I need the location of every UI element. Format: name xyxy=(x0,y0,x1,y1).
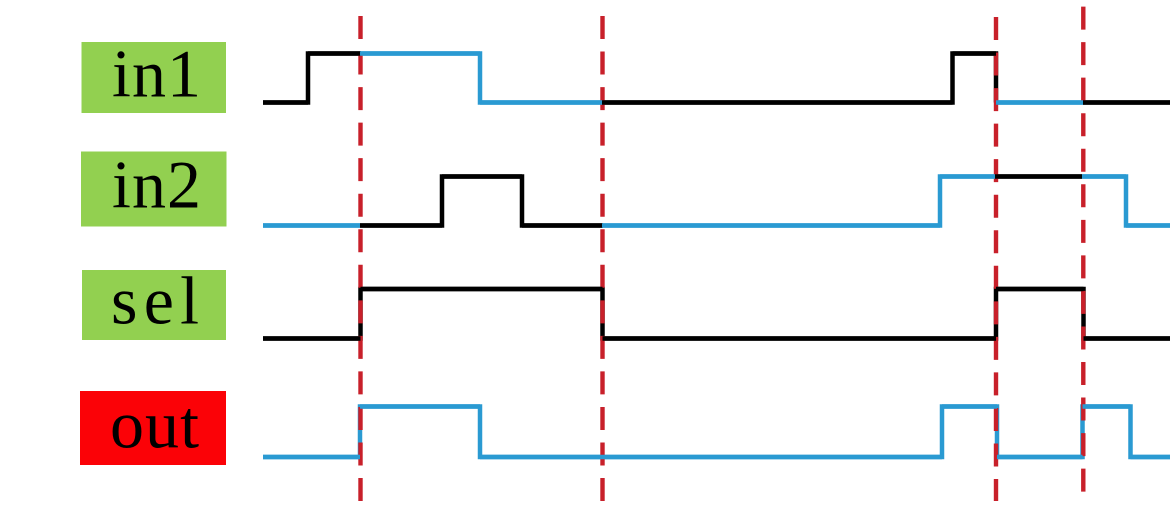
svg-text:in1: in1 xyxy=(112,36,201,112)
svg-text:sel: sel xyxy=(111,263,199,339)
svg-text:out: out xyxy=(110,387,199,463)
svg-text:in2: in2 xyxy=(112,147,201,223)
